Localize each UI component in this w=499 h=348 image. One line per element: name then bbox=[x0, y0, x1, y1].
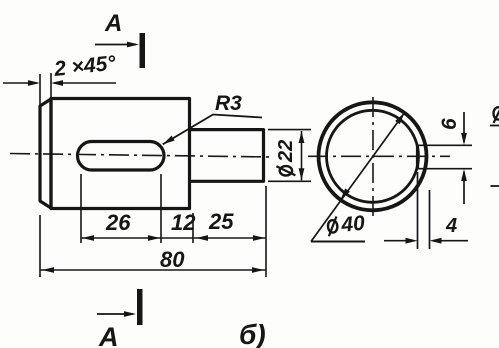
vertical centerline of circle bbox=[372, 97, 374, 217]
left end face of shaft bbox=[40, 99, 51, 208]
section arrow bottom bbox=[97, 313, 133, 315]
svg-text:40: 40 bbox=[339, 212, 366, 237]
dimension line 4 right part bbox=[433, 240, 468, 242]
chamfer dimension line right part bbox=[54, 82, 116, 84]
horizontal centerline of circle bbox=[308, 155, 450, 157]
inner chamfer circle bbox=[327, 110, 419, 202]
section plane mark bottom (thick bar) bbox=[137, 289, 143, 325]
keyway extension line top bbox=[419, 144, 472, 146]
extension line at left face (for dim 80) bbox=[39, 215, 41, 277]
dimension line 6 upper segment bbox=[463, 112, 465, 142]
svg-text:22: 22 bbox=[275, 140, 297, 163]
label dia 40 bbox=[327, 212, 366, 238]
dimension line 26 bbox=[81, 237, 161, 239]
dimension line 80 bbox=[40, 269, 266, 271]
outer circle (section A-A, dia 40) bbox=[319, 102, 427, 210]
svg-text:80: 80 bbox=[160, 247, 185, 272]
extension lines for dia 22 bbox=[268, 130, 311, 182]
dimension line 6 lower segment bbox=[463, 172, 465, 204]
svg-text:12: 12 bbox=[171, 210, 196, 235]
dimension line dia 22 bbox=[301, 131, 303, 180]
extension line keyway left (for dim 26) bbox=[80, 174, 82, 243]
cropped fragment: dia symbol at right edge bbox=[494, 104, 499, 123]
chamfer dimension line left part bbox=[3, 82, 37, 84]
extension line circle tangent (for dim 4) bbox=[429, 190, 431, 249]
svg-text:6: 6 bbox=[438, 118, 461, 130]
keyway extension line bottom bbox=[419, 168, 472, 170]
chamfer edge line bbox=[49, 99, 52, 209]
cropped fragment: dimension line stub at right edge bbox=[491, 185, 499, 187]
svg-text:A: A bbox=[98, 322, 119, 348]
extension line keyway right (for dims 26/12) bbox=[160, 174, 162, 243]
keyway slot (rounded slot on shaft) bbox=[78, 142, 165, 171]
centerline of shaft (side view) bbox=[10, 154, 272, 158]
svg-text:R3: R3 bbox=[215, 92, 242, 115]
cropped fragment: underline below dia symbol bbox=[490, 125, 499, 127]
dimension line dia 40 (diagonal) bbox=[311, 113, 405, 242]
keyway flat (slot bottom) on section bbox=[416, 145, 419, 170]
dimension line 12 (between outside arrows) bbox=[161, 237, 193, 239]
svg-text:2 ×45°: 2 ×45° bbox=[52, 52, 117, 81]
R3 leader arrow bbox=[161, 136, 174, 147]
extension line shoulder (for dims 12/25) bbox=[192, 213, 194, 243]
label dia 22 (rotated) bbox=[275, 140, 297, 176]
dimension line 4 left part bbox=[384, 240, 414, 242]
extension line keyway flat (for dim 4) bbox=[417, 172, 419, 249]
R3 leader line bbox=[163, 115, 262, 145]
leader shelf for dia 40 bbox=[311, 241, 365, 243]
dimension line 25 bbox=[193, 237, 266, 239]
shaft body (large cylinder) outline bbox=[51, 99, 190, 209]
section arrow top bbox=[95, 44, 136, 46]
svg-text:A: A bbox=[104, 10, 122, 37]
chamfer dimension extension lines bbox=[40, 73, 51, 106]
svg-text:25: 25 bbox=[208, 209, 234, 234]
svg-text:б): б) bbox=[239, 319, 266, 348]
small shaft (right journal) bbox=[190, 130, 264, 182]
svg-text:26: 26 bbox=[105, 210, 131, 235]
extension line shaft end (for dims 25/80) bbox=[265, 186, 267, 277]
svg-text:4: 4 bbox=[445, 215, 457, 237]
section plane mark top (thick bar) bbox=[140, 33, 146, 68]
